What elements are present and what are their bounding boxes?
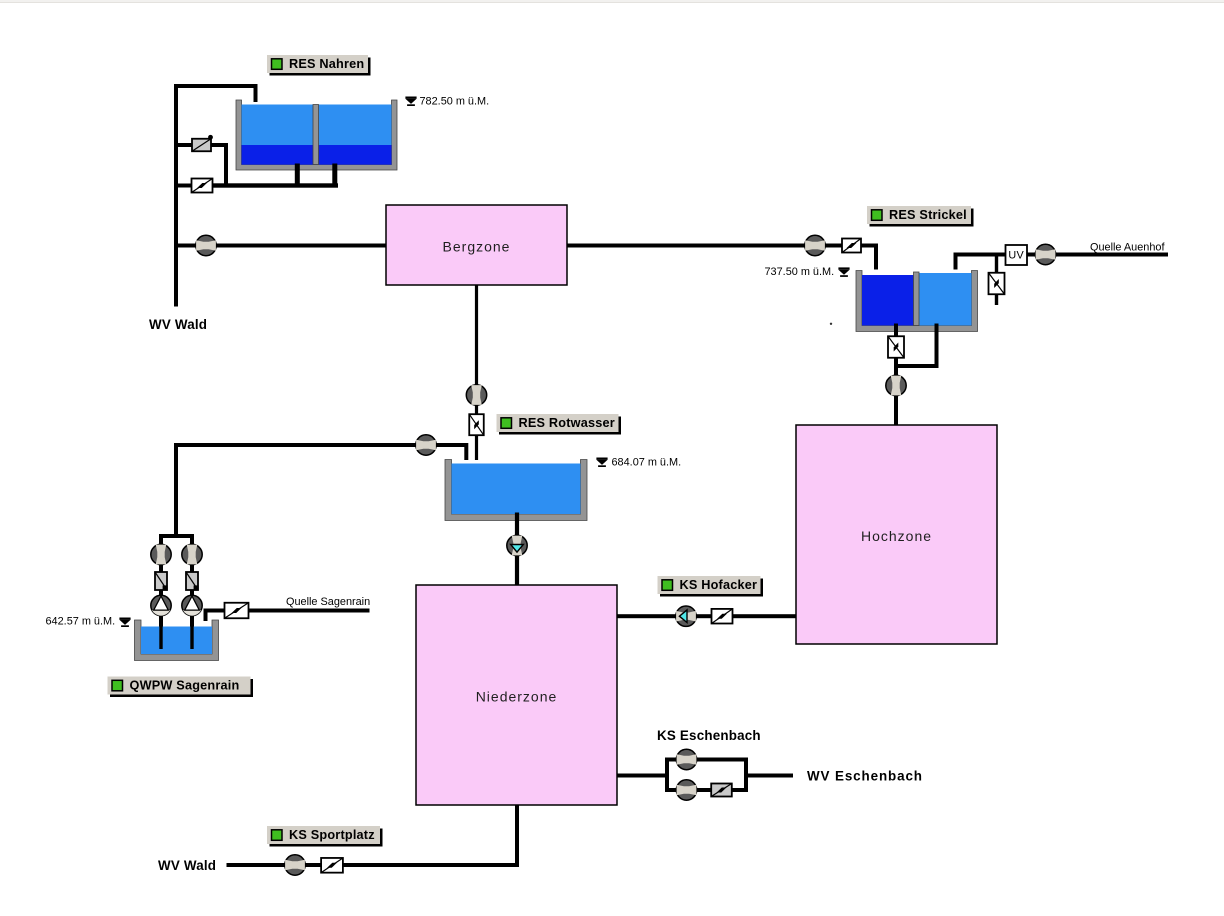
svg-text:KS Sportplatz: KS Sportplatz bbox=[289, 828, 375, 842]
valve V1 RES Nahren bbox=[192, 135, 213, 151]
valve V QWPW left bbox=[155, 572, 168, 590]
water level marker RES Rotwasser level bbox=[596, 458, 607, 468]
valve V KS Sportplatz bbox=[321, 858, 343, 873]
status label RES Nahren bbox=[267, 55, 371, 76]
svg-text:684.07 m ü.M.: 684.07 m ü.M. bbox=[612, 457, 682, 469]
pump P Bergzone-Rotwasser bbox=[466, 385, 486, 405]
svg-text:WV Eschenbach: WV Eschenbach bbox=[807, 769, 923, 784]
reservoir tank RES Rotwasser bbox=[445, 460, 587, 521]
pump P QWPW upper right bbox=[182, 544, 202, 564]
svg-text:KS Hofacker: KS Hofacker bbox=[680, 578, 758, 592]
pump P Strickel feed bbox=[805, 235, 825, 255]
stray dot node bbox=[830, 323, 832, 325]
valve V UV branch bbox=[989, 273, 1005, 295]
valve V2 RES Nahren bbox=[192, 179, 213, 193]
zone box Bergzone bbox=[386, 205, 567, 285]
status label QWPW Sagenrain bbox=[108, 677, 254, 698]
status label RES Strickel bbox=[867, 206, 974, 227]
pump P Strickel outlet bbox=[886, 375, 906, 395]
wire RES Nahren inlet stub bbox=[254, 86, 258, 102]
svg-text:Hochzone: Hochzone bbox=[861, 528, 932, 544]
wire QWPW to RES Rotwasser bbox=[174, 443, 468, 447]
wire RES Strickel outlet join bbox=[894, 364, 939, 368]
wire branch to valve V2 bbox=[176, 184, 193, 188]
wire KS Eschenbach loop right bbox=[744, 758, 748, 793]
pump P QWPW well left bbox=[151, 595, 171, 615]
pump P KS Eschenbach lower bbox=[676, 780, 696, 800]
wire QWPW suction pipe right bbox=[190, 626, 193, 649]
wire corner drop to collector bbox=[224, 143, 228, 188]
wire RES Strickel right inlet stub bbox=[954, 253, 958, 270]
valve V Rotwasser feed bbox=[469, 414, 484, 435]
wire QWPW suction pipe left bbox=[159, 626, 162, 649]
svg-text:RES Strickel: RES Strickel bbox=[889, 208, 967, 222]
wire WV Wald bottom line bbox=[227, 863, 520, 867]
wire branch to valve V1 bbox=[176, 143, 193, 147]
svg-text:737.50 m ü.M.: 737.50 m ü.M. bbox=[765, 266, 835, 278]
wire Quelle Sagenrain line bbox=[204, 609, 370, 613]
UV treatment unit bbox=[1006, 245, 1028, 265]
wire WV Wald to Bergzone bbox=[176, 244, 386, 248]
pump P WV Wald feed bbox=[196, 235, 216, 255]
wire valve V1 to corner bbox=[210, 143, 228, 147]
pump P QWPW upper left bbox=[151, 544, 171, 564]
pump P Quelle Auenhof bbox=[1035, 244, 1055, 264]
wire RES Nahren outlet collector bbox=[212, 183, 339, 187]
wire RES Strickel right outlet bbox=[935, 324, 939, 369]
wire RES Strickel outlet to Hochzone bbox=[894, 324, 898, 426]
water level marker QWPW Sagenrain level bbox=[119, 618, 130, 628]
status label KS Hofacker bbox=[658, 576, 764, 597]
valve V Strickel outlet bbox=[888, 336, 904, 358]
wire Quelle Sagenrain inlet stub bbox=[204, 609, 208, 622]
wire KS Eschenbach to WV Eschenbach bbox=[746, 774, 793, 778]
wire Bergzone to RES Strickel feed bbox=[567, 244, 878, 248]
reservoir tank RES Strickel bbox=[856, 271, 978, 332]
svg-text:WV Wald: WV Wald bbox=[158, 858, 216, 873]
valve V KS Hofacker bbox=[712, 609, 733, 624]
valve V Quelle Sagenrain bbox=[225, 603, 249, 619]
wire Niederzone to KS Eschenbach bbox=[617, 774, 667, 778]
wire QWPW split bar bbox=[159, 534, 194, 538]
wire riser to Niederzone bottom bbox=[515, 805, 519, 867]
svg-text:Quelle Auenhof: Quelle Auenhof bbox=[1090, 242, 1165, 254]
wire QWPW branch right bbox=[190, 536, 194, 646]
wire UV branch stub bbox=[995, 255, 998, 306]
window top edge bbox=[0, 0, 1224, 3]
pump P KS Sportplatz bbox=[285, 855, 305, 875]
water level marker RES Nahren level bbox=[405, 97, 416, 107]
pump P QWPW line bbox=[416, 435, 436, 455]
wire QWPW riser bbox=[174, 443, 178, 536]
pump P QWPW well right bbox=[182, 595, 202, 615]
pump P KS Hofacker bbox=[676, 606, 696, 626]
wire KS Eschenbach loop top bbox=[665, 758, 748, 762]
pump P Rotwasser outlet bbox=[507, 535, 527, 555]
zone box Hochzone bbox=[796, 425, 997, 644]
svg-text:Bergzone: Bergzone bbox=[443, 239, 511, 255]
svg-text:642.57 m ü.M.: 642.57 m ü.M. bbox=[46, 616, 116, 628]
wire top feed to RES Nahren bbox=[174, 84, 258, 88]
wire KS Hofacker line bbox=[617, 614, 796, 618]
svg-text:WV Wald: WV Wald bbox=[149, 317, 207, 332]
wire QWPW branch left bbox=[159, 536, 163, 646]
wire KS Eschenbach loop left bbox=[665, 758, 669, 793]
wire RES Strickel left inlet stub bbox=[874, 244, 878, 270]
valve V Strickel feed bbox=[842, 239, 861, 253]
svg-text:QWPW Sagenrain: QWPW Sagenrain bbox=[130, 679, 240, 693]
reservoir tank RES Nahren bbox=[236, 100, 397, 170]
wire RES Rotwasser left inlet stub bbox=[464, 443, 468, 460]
wire left main riser bbox=[174, 84, 178, 307]
svg-text:UV: UV bbox=[1008, 250, 1024, 262]
valve V KS Eschenbach bbox=[711, 784, 732, 797]
wire RES Nahren outlet right bbox=[332, 164, 337, 186]
wire RES Rotwasser outlet bbox=[515, 513, 519, 586]
valve V QWPW right bbox=[186, 572, 199, 590]
well tank QWPW Sagenrain bbox=[135, 620, 219, 661]
svg-text:KS Eschenbach: KS Eschenbach bbox=[657, 728, 761, 743]
pump P KS Eschenbach upper bbox=[676, 749, 696, 769]
wire Bergzone to RES Rotwasser bbox=[475, 285, 478, 460]
svg-text:Quelle Sagenrain: Quelle Sagenrain bbox=[286, 596, 370, 608]
wire KS Eschenbach loop bottom bbox=[665, 788, 748, 792]
svg-text:RES Nahren: RES Nahren bbox=[289, 57, 364, 71]
svg-text:782.50 m ü.M.: 782.50 m ü.M. bbox=[420, 96, 490, 108]
wire RES Nahren outlet left bbox=[295, 164, 300, 186]
zone box Niederzone bbox=[416, 585, 617, 805]
status label RES Rotwasser bbox=[497, 414, 622, 435]
status label KS Sportplatz bbox=[267, 826, 383, 847]
wire RES Strickel right inlet bbox=[954, 253, 1007, 257]
wire UV to Quelle Auenhof bbox=[1027, 253, 1168, 257]
water level marker RES Strickel level bbox=[838, 267, 849, 277]
svg-text:RES Rotwasser: RES Rotwasser bbox=[519, 416, 615, 430]
svg-text:Niederzone: Niederzone bbox=[476, 689, 558, 705]
